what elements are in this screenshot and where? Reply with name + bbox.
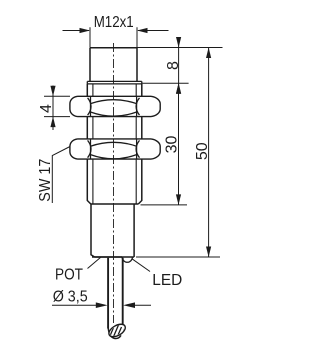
body sides with bottom chamfers bbox=[87, 84, 142, 204]
diameter right arrow bbox=[123, 302, 135, 308]
dim 30: bottom extension line bbox=[141, 204, 188, 206]
dim 8 bottom arrowhead bbox=[176, 83, 181, 94]
dim 30 bottom arrowhead bbox=[176, 194, 181, 205]
dim M12x1: dimension line with outside arrows bbox=[63, 30, 169, 32]
svg-text:50: 50 bbox=[194, 142, 211, 160]
dim 50: bottom extension line bbox=[136, 256, 220, 258]
dim 30 top arrowhead bbox=[176, 83, 181, 94]
hex nut N2 outline bbox=[70, 139, 160, 159]
svg-text:30: 30 bbox=[163, 136, 180, 154]
M12 extension lines bbox=[90, 27, 137, 47]
svg-text:POT: POT bbox=[55, 267, 83, 284]
LED dome bbox=[122, 257, 132, 262]
nut N1 chamfer arcs bbox=[88, 98, 140, 116]
cable cut ellipse with hatching bbox=[107, 321, 128, 345]
cable sides bbox=[108, 258, 123, 329]
diameter leader underline with right-pointing arrowhead bbox=[52, 304, 98, 306]
dim 4: extension lines bbox=[44, 96, 70, 116]
dim 50 top arrowhead bbox=[206, 48, 211, 59]
dim 8 top arrowhead bbox=[176, 37, 181, 48]
svg-text:SW 17: SW 17 bbox=[37, 159, 54, 202]
dim 4: dimension line with outside arrows bbox=[52, 86, 54, 131]
cable end outer tip bbox=[108, 327, 121, 339]
dim 8: top extension line bbox=[137, 47, 223, 49]
dim 30: dimension line with inside arrows bbox=[178, 83, 180, 205]
nut N1 facet lines bbox=[91, 96, 137, 116]
svg-text:LED: LED bbox=[152, 272, 182, 289]
svg-text:M12x1: M12x1 bbox=[94, 14, 134, 31]
dim 4 bottom arrowhead bbox=[50, 117, 55, 128]
hex nut N1 outline bbox=[70, 96, 160, 116]
dim 8: bottom extension line bbox=[142, 82, 189, 84]
collar at thread end bbox=[87, 81, 142, 84]
M12 right arrowhead bbox=[137, 28, 148, 33]
LED leader line bbox=[132, 259, 150, 272]
nut N2 chamfer arcs bbox=[88, 140, 140, 158]
SW 17 leader line bbox=[52, 147, 70, 204]
dim 50 bottom arrowhead bbox=[206, 247, 211, 258]
POT leader line bbox=[88, 257, 101, 268]
lower housing bbox=[91, 204, 134, 257]
dim 4 top arrowhead bbox=[50, 86, 55, 97]
svg-text:Ø 3,5: Ø 3,5 bbox=[53, 289, 88, 306]
nut N2 facet lines bbox=[91, 139, 137, 159]
body inner lines (thread silhouette) bbox=[93, 84, 136, 204]
dim 50: dimension line with inside arrows bbox=[208, 48, 210, 258]
center line (vertical dash-dot axis) bbox=[113, 43, 115, 323]
dim 8: dimension line with outside arrows bbox=[178, 38, 180, 94]
svg-text:8: 8 bbox=[165, 61, 182, 70]
M12 left arrowhead bbox=[80, 28, 91, 33]
svg-text:4: 4 bbox=[38, 104, 55, 113]
thread barrel (M12x1 top section) bbox=[90, 48, 137, 82]
